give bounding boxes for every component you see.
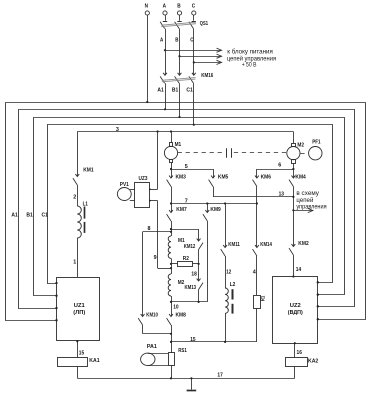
wire phase B <box>179 29 181 75</box>
svg-text:KM1: KM1 <box>83 167 93 173</box>
node wire9 joins M column <box>170 267 172 269</box>
svg-text:3: 3 <box>116 127 119 133</box>
svg-text:KM14: KM14 <box>260 242 272 248</box>
svg-text:R1: R1 <box>260 296 266 302</box>
svg-text:M2: M2 <box>297 142 304 148</box>
svg-text:A: A <box>163 4 166 10</box>
svg-text:KM7: KM7 <box>176 207 186 213</box>
tap arrow from phase B <box>178 54 221 58</box>
svg-text:B: B <box>175 38 178 44</box>
wire 15 below UZ1 <box>76 340 84 358</box>
wire 4 <box>253 256 257 295</box>
converter UZ1 <box>55 278 99 341</box>
svg-text:KM16: KM16 <box>201 73 213 79</box>
svg-text:KM3: KM3 <box>176 174 186 180</box>
svg-text:(ЛП): (ЛП) <box>73 310 85 316</box>
wire phase A <box>165 29 167 75</box>
terminal C <box>192 4 196 16</box>
bus ring N <box>6 101 366 321</box>
wire 6 <box>257 163 295 170</box>
wire 2 <box>73 185 77 206</box>
svg-text:KM6: KM6 <box>261 174 271 180</box>
wire 17 <box>77 373 294 380</box>
svg-text:KA1: KA1 <box>89 358 99 364</box>
contactor KM11 <box>221 204 240 257</box>
contactor KM14 <box>253 242 273 256</box>
svg-text:8: 8 <box>148 226 151 232</box>
svg-text:14: 14 <box>296 267 301 273</box>
bus ring C1 <box>48 125 333 285</box>
bus ring A1 <box>19 110 355 310</box>
inductor L2 <box>225 282 235 342</box>
svg-text:(ВДП): (ВДП) <box>288 310 303 316</box>
ground <box>187 377 197 390</box>
wire rejoin field column <box>170 301 207 303</box>
svg-text:16: 16 <box>297 350 302 356</box>
tap arrow from phase A <box>164 48 222 52</box>
wire 8 <box>143 226 199 317</box>
contactor KM6 <box>253 169 272 248</box>
svg-text:KM2: KM2 <box>298 241 308 247</box>
svg-text:15: 15 <box>79 350 84 356</box>
svg-text:A1: A1 <box>11 212 17 218</box>
svg-text:PF1: PF1 <box>312 139 320 145</box>
motor M1 <box>164 132 181 170</box>
svg-text:UZ1: UZ1 <box>74 303 85 309</box>
shunt RS1 <box>169 348 187 378</box>
svg-text:A1: A1 <box>157 88 163 94</box>
svg-text:12: 12 <box>226 269 231 275</box>
wire 15 node <box>170 334 257 353</box>
contactor KM3 <box>167 169 186 204</box>
contactor KM5 <box>209 169 229 197</box>
contactor KM4 <box>289 169 307 247</box>
wire 16 below UZ2 <box>294 342 302 358</box>
contactor KM9 <box>203 204 221 302</box>
wire 13 <box>213 192 295 198</box>
svg-text:C: C <box>190 38 193 44</box>
terminal A <box>163 4 167 16</box>
svg-text:PA1: PA1 <box>147 344 157 350</box>
contactor KM1 <box>73 132 94 186</box>
svg-text:RS1: RS1 <box>178 348 187 354</box>
switch QS1 <box>160 15 208 29</box>
svg-text:KM8: KM8 <box>176 313 186 319</box>
svg-text:M2: M2 <box>178 280 185 286</box>
svg-text:10: 10 <box>173 304 178 310</box>
ammeter PA1 <box>141 344 169 365</box>
svg-text:KM11: KM11 <box>228 242 240 248</box>
svg-text:1: 1 <box>73 259 76 265</box>
svg-text:15: 15 <box>190 337 195 343</box>
relay KA1 <box>58 358 100 379</box>
svg-text:B1: B1 <box>26 212 32 218</box>
label to power supply block <box>227 48 276 68</box>
svg-text:18: 18 <box>191 271 196 277</box>
wire 12 <box>226 256 232 288</box>
fan PF1 <box>300 139 322 160</box>
svg-text:N: N <box>145 4 148 10</box>
voltmeter PV1 <box>117 182 134 201</box>
shaft coupling dashed link M1-M2 <box>178 148 287 158</box>
svg-text:UZ3: UZ3 <box>139 176 148 182</box>
svg-text:цепей: цепей <box>296 197 313 204</box>
svg-text:L2: L2 <box>230 282 236 288</box>
wire 9 <box>154 201 171 269</box>
svg-text:KM5: KM5 <box>218 174 228 180</box>
svg-text:B: B <box>177 4 180 10</box>
wire 18 <box>191 250 198 282</box>
svg-text:C: C <box>192 4 195 10</box>
relay KA2 <box>286 358 319 379</box>
svg-text:13: 13 <box>279 192 284 198</box>
svg-text:UZ2: UZ2 <box>290 303 301 309</box>
svg-text:A: A <box>160 38 163 44</box>
resistor R1 <box>254 296 267 342</box>
svg-text:4: 4 <box>253 269 256 275</box>
wire phase C <box>193 29 195 75</box>
contactor KM16 <box>160 73 213 83</box>
wire 7 <box>170 198 258 204</box>
svg-text:KM4: KM4 <box>295 174 306 180</box>
svg-text:6: 6 <box>278 163 281 169</box>
wire 5 <box>170 164 213 170</box>
converter UZ2 <box>273 277 319 344</box>
motor M2 <box>287 132 304 170</box>
svg-text:QS1: QS1 <box>200 21 208 27</box>
field winding M2 <box>168 264 184 302</box>
svg-text:KA2: KA2 <box>308 359 318 365</box>
resistor R2 <box>170 256 200 266</box>
terminal B <box>177 4 181 16</box>
contactor KM10 <box>138 313 171 334</box>
wire 1 <box>73 238 77 277</box>
svg-text:KM10: KM10 <box>146 313 158 319</box>
svg-text:к блоку питания: к блоку питания <box>227 48 272 55</box>
svg-text:C1: C1 <box>42 212 48 218</box>
wire A1 to bus <box>157 83 166 110</box>
svg-text:KM9: KM9 <box>210 207 220 213</box>
bus ring B1 <box>34 118 345 297</box>
converter UZ3 <box>135 176 158 207</box>
svg-text:C1: C1 <box>186 88 192 94</box>
wire 3 <box>77 127 293 133</box>
svg-text:R2: R2 <box>183 256 189 262</box>
wire 10 <box>172 302 179 317</box>
svg-text:5: 5 <box>185 164 188 170</box>
contactor KM12 <box>184 229 203 250</box>
svg-text:9: 9 <box>154 255 157 261</box>
contactor KM7 <box>167 204 187 232</box>
arrow to control circuit <box>292 208 313 212</box>
svg-text:+ 50 В: + 50 В <box>242 61 257 68</box>
svg-text:B1: B1 <box>172 88 178 94</box>
field winding M1 <box>168 232 184 264</box>
wire from bus 3 to UZ3 <box>157 132 159 190</box>
terminal N <box>145 4 150 102</box>
svg-text:17: 17 <box>217 373 222 379</box>
svg-text:7: 7 <box>185 198 188 204</box>
contactor KM13 <box>185 279 204 302</box>
wire C1 to bus <box>186 83 194 126</box>
wire 14 <box>292 255 301 278</box>
svg-text:M1: M1 <box>175 142 182 148</box>
svg-text:в схему: в схему <box>296 191 319 197</box>
label to control circuit scheme <box>296 191 326 210</box>
wire B1 to bus <box>172 83 181 118</box>
inductor L1 <box>77 201 87 238</box>
svg-text:2: 2 <box>73 194 76 200</box>
tap arrow from phase C <box>193 60 222 64</box>
svg-text:KM12: KM12 <box>184 244 196 250</box>
svg-text:управления: управления <box>296 204 326 210</box>
svg-text:KM13: KM13 <box>185 285 197 291</box>
contactor KM8 <box>167 313 186 335</box>
contactor KM2 <box>289 241 309 255</box>
svg-text:L1: L1 <box>83 201 88 207</box>
